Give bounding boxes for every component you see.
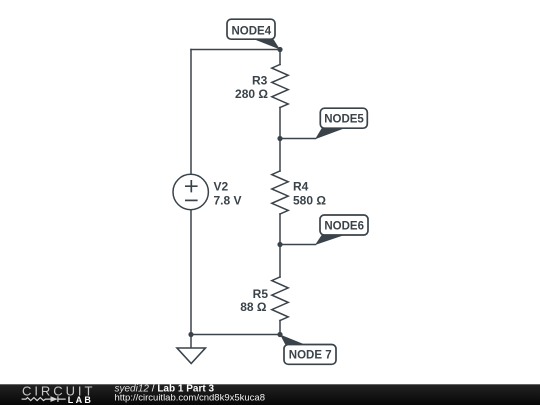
- svg-text:280 Ω: 280 Ω: [235, 87, 268, 101]
- junction dot node5: [277, 136, 282, 141]
- wire between node5 junction and R4: [279, 139, 281, 172]
- logo resistor-diode squiggle: [22, 396, 66, 402]
- wire between R5 and bottom junction: [279, 321, 281, 335]
- resistor R4 zigzag: [272, 171, 288, 214]
- wire top horizontal: [191, 49, 280, 51]
- svg-text:R5: R5: [253, 287, 269, 301]
- wire node6 stub: [280, 244, 316, 246]
- svg-text:NODE6: NODE6: [324, 221, 364, 233]
- resistor R5 zigzag: [272, 277, 288, 321]
- wire right segment above R3: [279, 50, 281, 65]
- junction dot ground: [188, 332, 193, 337]
- node NODE6 flag: [315, 215, 368, 245]
- node NODE 7 flag: [280, 335, 336, 365]
- wire bottom horizontal: [191, 334, 280, 336]
- node NODE4 flag: [227, 19, 280, 49]
- wire node5 stub: [280, 138, 316, 140]
- ground: [177, 348, 205, 364]
- node NODE5 flag: [315, 108, 367, 139]
- svg-text:88 Ω: 88 Ω: [240, 300, 267, 314]
- svg-text:NODE 7: NODE 7: [289, 350, 332, 362]
- wire left vertical upper: [190, 50, 192, 175]
- svg-text:R3: R3: [252, 73, 268, 87]
- junction dot node6: [277, 242, 282, 247]
- wire between R4 and node6 junction: [279, 214, 281, 245]
- label R4 value: [293, 180, 326, 208]
- svg-text:NODE5: NODE5: [324, 114, 364, 126]
- wire ground stem: [190, 335, 192, 349]
- svg-text:R4: R4: [293, 180, 309, 194]
- svg-text:LAB: LAB: [68, 395, 93, 405]
- wire left vertical lower: [190, 210, 192, 335]
- label V2 value: [214, 180, 242, 208]
- svg-text:http://circuitlab.com/cnd8k9x5: http://circuitlab.com/cnd8k9x5kuca8: [115, 393, 266, 404]
- svg-text:580 Ω: 580 Ω: [293, 194, 326, 208]
- junction dot node4: [277, 47, 282, 52]
- wire between node6 junction and R5: [279, 245, 281, 278]
- label R3 value: [235, 73, 268, 101]
- resistor R3 zigzag: [272, 65, 288, 108]
- voltage source V2: [173, 174, 208, 209]
- svg-text:7.8 V: 7.8 V: [214, 194, 242, 208]
- label R5 value: [240, 287, 268, 314]
- wire between R3 and node5 junction: [279, 108, 281, 139]
- junction dot node7: [277, 332, 282, 337]
- svg-text:V2: V2: [214, 180, 229, 194]
- svg-text:NODE4: NODE4: [231, 26, 271, 38]
